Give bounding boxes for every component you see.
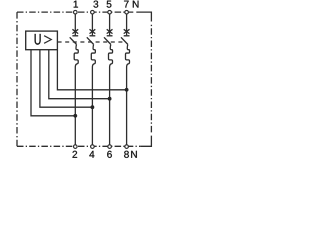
- terminal 3: [91, 10, 95, 14]
- label N top: [133, 1, 139, 8]
- undervoltage release U1 box: [26, 31, 58, 50]
- label 3 top: [93, 1, 98, 8]
- pole 3 mechanism squiggle: [109, 44, 113, 144]
- label > of release: [44, 36, 51, 44]
- enclosure chain border top-right corner dash: [136, 12, 151, 21]
- label 1 top: [74, 1, 78, 8]
- label 8 bottom: [124, 151, 129, 158]
- pole 1 contact blade: [70, 37, 77, 44]
- label N bottom: [131, 151, 137, 158]
- terminal 4: [91, 145, 95, 149]
- pole 3 contact blade: [104, 37, 111, 44]
- terminal 1: [74, 10, 78, 14]
- wire from U1 to pole 3: [49, 50, 110, 99]
- junction pole 1 / U1 wire: [73, 114, 77, 118]
- enclosure chain border bottom: [17, 145, 140, 147]
- pole 4 contact bar: [124, 35, 130, 37]
- label 6 bottom: [107, 151, 112, 158]
- pole 1 breaker cross: [72, 29, 78, 33]
- mechanical linkage dashed line: [58, 41, 126, 43]
- enclosure chain border top: [17, 11, 135, 13]
- label 5 top: [107, 1, 112, 8]
- terminal 5: [108, 10, 112, 14]
- pole 3 upper conductor: [109, 14, 111, 35]
- pole 2 contact blade: [87, 37, 94, 44]
- enclosure chain border left: [16, 12, 18, 146]
- junction pole 2 / U1 wire: [91, 105, 95, 109]
- pole 2 mechanism squiggle: [91, 44, 95, 144]
- terminal 8: [125, 145, 129, 149]
- pole 2 upper conductor: [91, 14, 93, 35]
- pole 3 breaker cross: [107, 29, 113, 33]
- wire from U1 to pole 1: [31, 50, 75, 116]
- wire from U1 to pole 2: [40, 50, 93, 107]
- pole 2 breaker cross: [90, 29, 96, 33]
- enclosure chain border bottom-right corner dash: [140, 136, 151, 147]
- label 7 top: [124, 1, 129, 8]
- terminal 7: [125, 10, 129, 14]
- pole 4 contact blade: [121, 37, 128, 44]
- enclosure chain border right: [150, 25, 152, 134]
- pole 4 mechanism squiggle: [126, 44, 130, 144]
- pole 1 mechanism squiggle: [74, 44, 78, 144]
- pole 3 contact bar: [107, 35, 113, 37]
- label 4 bottom: [89, 151, 94, 158]
- pole 1 contact bar: [72, 35, 78, 37]
- terminal 6: [108, 145, 112, 149]
- pole 4 upper conductor: [126, 14, 128, 35]
- junction pole 3 / U1 wire: [108, 97, 112, 101]
- label U of release: [35, 34, 41, 45]
- terminal 2: [74, 145, 78, 149]
- label 2 bottom: [73, 151, 78, 158]
- junction pole 4 / U1 wire: [125, 88, 129, 92]
- pole 4 breaker cross: [124, 29, 130, 33]
- pole 1 upper conductor: [74, 14, 76, 35]
- pole 2 contact bar: [90, 35, 96, 37]
- wire from U1 to pole 4: [57, 50, 126, 90]
